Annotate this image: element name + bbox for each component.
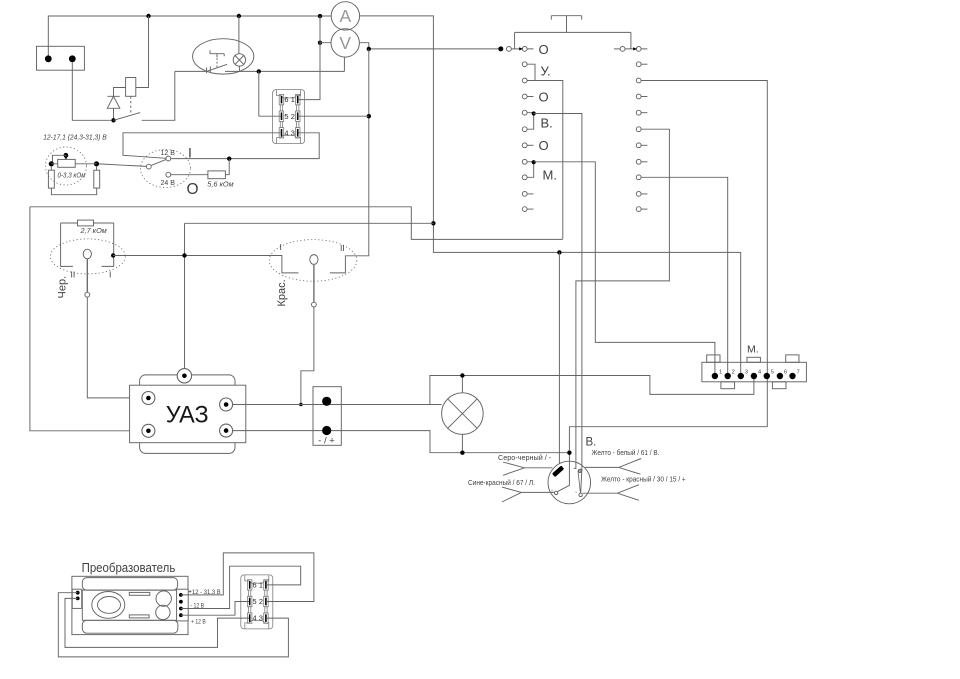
svg-text:12 В: 12 В	[161, 150, 176, 157]
rotary switch right bank contacts	[614, 47, 648, 212]
diode VD1	[107, 96, 120, 120]
wire: SA2 to SA3 rail	[113, 256, 298, 273]
leader: grey-black	[503, 462, 552, 475]
svg-text:Сине-красный / 67 / Л.: Сине-красный / 67 / Л.	[468, 479, 535, 487]
label: blue-red wire	[468, 479, 535, 487]
svg-text:II: II	[71, 270, 76, 280]
label: output voltage range	[43, 133, 107, 142]
svg-text:12-17,1 (24,3-31,3) В: 12-17,1 (24,3-31,3) В	[43, 133, 107, 142]
wire: pot terminals	[51, 163, 96, 165]
switch SA2 contacts	[61, 223, 114, 266]
relay armature dashed link	[130, 96, 132, 113]
switch SA3 red knob dotted outline	[269, 240, 357, 282]
wire: plug minus to diode node	[72, 62, 111, 120]
shunt box minus plus	[313, 387, 341, 446]
node: SA3 drop junction	[299, 403, 303, 407]
wire: 24V contact to resistor	[171, 159, 230, 175]
label: switch position I	[188, 145, 192, 161]
wire: M contact run to connector M pin 1	[534, 162, 715, 373]
node: feed junction to relay	[146, 14, 150, 18]
box UAZ body	[130, 385, 246, 443]
svg-text:ч: ч	[551, 488, 553, 493]
node: lamp bottom	[460, 451, 464, 455]
leader: blue-red	[502, 487, 554, 502]
leader: yellow-red	[583, 485, 640, 501]
switch blade of relay contact	[114, 113, 141, 121]
wire: X3 internal diagonal	[578, 471, 580, 493]
converter speaker	[92, 592, 125, 619]
label: +12 V	[191, 619, 206, 626]
potentiometer R1 dotted outline	[46, 147, 87, 185]
svg-text:В.: В.	[541, 115, 553, 130]
label: SA3 position II	[340, 243, 345, 253]
node: left bank feed dot	[498, 46, 503, 51]
svg-text:О: О	[539, 138, 549, 153]
wire: relay contact to indicator ellipse	[142, 71, 175, 120]
label: Kras.	[276, 279, 288, 306]
label: 12 V position	[161, 150, 176, 157]
wire: U contact drop	[535, 81, 563, 239]
round connector X3 ignition switch back	[548, 461, 591, 504]
node: M contact bracket	[532, 160, 536, 164]
svg-text:М.: М.	[543, 168, 557, 183]
wire: branch to ignition coil pin	[558, 252, 560, 463]
node: meters left top	[318, 14, 322, 18]
svg-text:Желто - красный / 30 / 15 / +: Желто - красный / 30 / 15 / +	[601, 475, 686, 483]
wire: wiper tie to left terminal	[52, 155, 66, 164]
wire: tap to X2 pin 4	[123, 133, 280, 159]
node: 12V line junction	[227, 157, 231, 161]
node: common vertical junction with X2 pin 2	[367, 114, 371, 118]
wire: SA2 rotor down to UAZ pin	[87, 297, 142, 398]
label: 24 V position	[161, 180, 176, 187]
wire: resistor loop	[51, 166, 96, 194]
node: lamp rail junction to round connector	[567, 451, 571, 455]
UAZ top pin	[177, 369, 191, 383]
switch SA2 rotor	[83, 249, 91, 297]
resistor R2 fixed left	[48, 170, 54, 188]
svg-text:У.: У.	[541, 64, 551, 79]
svg-text:V: V	[339, 33, 351, 53]
wire: right bank row9 to M pin 2	[641, 177, 728, 372]
label: - / +	[318, 436, 335, 447]
label: У.	[541, 64, 551, 79]
potentiometer wiper	[64, 153, 69, 160]
label: grey-black wire	[498, 454, 552, 462]
wire: indicator node down to connector X2 pin 5	[259, 71, 281, 116]
connector M pins 1-7	[712, 369, 800, 379]
connector M housing	[702, 355, 807, 389]
label: О row4	[539, 90, 549, 105]
wire: converter +12V to X5 pin 5	[181, 602, 249, 616]
label: 5,6 kOhm	[207, 180, 233, 189]
wire: UAZ right top to lamp	[233, 404, 442, 406]
X3 terminal bottom-right	[575, 490, 582, 497]
label: О row7	[539, 138, 549, 153]
svg-text:4: 4	[758, 369, 761, 375]
label: 2,7 kOhm	[80, 226, 107, 235]
wire: strap branch to both rotary commons	[515, 32, 631, 49]
svg-text:I: I	[188, 145, 192, 161]
leader: yellow-white	[585, 459, 641, 475]
label: SA3 position I	[280, 242, 282, 252]
resistor R3 fixed right	[94, 170, 100, 188]
svg-text:Чер.: Чер.	[57, 276, 69, 299]
label: В.	[541, 115, 553, 130]
box UAZ rounded housing	[140, 375, 235, 454]
node: voltmeter output junction	[367, 47, 371, 51]
switch SA3 rotor	[310, 255, 318, 307]
wire: UAZ left loop	[30, 207, 142, 431]
svg-text:0-3,3 кОм: 0-3,3 кОм	[58, 170, 86, 179]
label: SA2 position II	[71, 270, 76, 280]
lamp symbol in indicator	[233, 16, 245, 71]
voltmeter V	[331, 29, 359, 57]
svg-text:7: 7	[797, 369, 800, 375]
potentiometer R1 body	[58, 159, 75, 167]
connector X1 power plug	[37, 46, 85, 70]
wire: common vertical to red switch	[330, 49, 369, 273]
label: Cher.	[57, 276, 69, 299]
svg-text:Крас.: Крас.	[276, 279, 288, 306]
node: pot left terminal	[49, 161, 54, 166]
node: ammeter run junction to round connector pin	[557, 250, 561, 254]
svg-text:О: О	[539, 90, 549, 105]
wire: X2 pin2 to common vertical	[298, 115, 369, 117]
connector X2 six pin	[273, 90, 305, 144]
converter slots	[129, 592, 150, 618]
wire: converter left 1 to X5 pin 3	[58, 593, 288, 657]
relay K1 coil	[114, 16, 149, 96]
svg-text:ч: ч	[575, 490, 577, 495]
switch SA2 black knob dotted outline	[50, 239, 125, 274]
label: О row1	[539, 42, 549, 57]
svg-text:2,7 кОм: 2,7 кОм	[80, 226, 107, 235]
label: M. connector	[747, 344, 759, 356]
switch symbol in indicator	[206, 50, 227, 73]
wire: battery plus feed	[48, 16, 331, 55]
converter knobs	[156, 591, 172, 620]
X3 terminal bottom-left	[551, 488, 558, 495]
converter face	[82, 590, 177, 620]
svg-text:5: 5	[771, 369, 774, 375]
svg-text:УАЗ: УАЗ	[166, 402, 209, 429]
wire: UAZ right bottom to lamp bottom rail	[233, 431, 570, 453]
svg-text:24 В: 24 В	[161, 180, 176, 187]
wire: 12V contact line to X2 pin 3	[171, 133, 320, 159]
lamp EL1	[442, 376, 484, 453]
svg-text:О: О	[539, 42, 549, 57]
label: B. near connector	[586, 436, 597, 448]
label: SA2 position I	[109, 270, 111, 280]
converter top bar	[82, 578, 177, 591]
svg-text:O: O	[187, 181, 199, 198]
svg-text:Желто - белый / 61 / В.: Желто - белый / 61 / В.	[592, 449, 660, 457]
node: meters left bottom	[318, 41, 322, 45]
label: switch position O	[187, 181, 199, 198]
voltage switch SA1 dotted outline	[141, 150, 191, 188]
voltage switch SA1 contacts	[146, 156, 170, 177]
label: UAZ	[166, 402, 209, 429]
node: diode-switch junction	[111, 118, 115, 122]
node: feed junction to indicator lamp	[237, 14, 241, 18]
indicator lamp HL1 ellipse housing	[193, 39, 254, 74]
resistor R5 2.7 kOhm	[61, 220, 114, 226]
svg-text:2: 2	[732, 369, 735, 375]
wire: UAZ top feed	[185, 223, 434, 368]
wire: converter out to X5 pin 2	[181, 553, 314, 602]
converter bottom bar	[82, 620, 178, 633]
svg-text:6: 6	[784, 369, 787, 375]
label: yellow-red wire	[601, 475, 686, 483]
wire: pot to voltage switch common	[99, 164, 146, 167]
svg-text:5,6 кОм: 5,6 кОм	[207, 180, 233, 189]
wire: lamp top loop to M pin 4	[430, 376, 754, 405]
resistor R4 5.6 kOhm	[208, 171, 226, 179]
label: yellow-white wire	[592, 449, 660, 457]
label: -12 V	[190, 603, 204, 610]
X3 blade terminal	[552, 465, 564, 477]
node: V contact bracket	[532, 111, 536, 115]
converter right pin block	[177, 589, 189, 621]
svg-text:3: 3	[745, 369, 748, 375]
wire: voltmeter output to rotary common	[359, 43, 500, 49]
wire: SA3 rotor to UAZ right wire	[301, 307, 314, 405]
UAZ corner pins	[142, 392, 233, 438]
label: М. rotary	[543, 168, 557, 183]
svg-text:A: A	[340, 6, 352, 26]
ground strap symbol	[551, 16, 581, 33]
converter left pin block	[72, 589, 82, 608]
svg-text:В.: В.	[586, 436, 597, 448]
node: ammeter run junction with UAZ top feed	[431, 221, 435, 225]
X3 terminal plus	[578, 469, 581, 472]
label: Preobrazovatel	[82, 560, 176, 575]
node: indicator rail junction	[257, 69, 261, 73]
wire: right bank row6 to round connector plus	[574, 129, 670, 468]
wire: right bank row3 to M pin 5 and beyond	[558, 81, 768, 492]
wire: converter -12V to X5 pin 1	[181, 566, 301, 608]
svg-text:М.: М.	[747, 344, 759, 356]
wire: bulkhead rail to U contact of rotary	[30, 207, 563, 240]
svg-text:+ 12 В: + 12 В	[191, 619, 206, 626]
ammeter A	[331, 2, 359, 30]
wire: V contact long drop to round connector	[534, 114, 582, 493]
converter outer case	[72, 576, 188, 634]
connector X5 six pin	[241, 575, 273, 629]
label: 12-31,3 V with arrow	[189, 589, 222, 596]
label: 0-3,3 kOhm	[58, 170, 86, 179]
rotary switch left bank contacts	[507, 47, 536, 212]
wire: meters left rail to X2 pin 1	[298, 16, 331, 100]
wire: indicator bottom rail	[175, 57, 345, 72]
svg-text:II: II	[340, 243, 345, 253]
svg-text:Серо-черный / -: Серо-черный / -	[498, 454, 552, 462]
svg-text:I: I	[280, 242, 282, 252]
svg-text:1: 1	[719, 369, 722, 375]
wire: converter left 2 to X5 pin 4	[65, 598, 249, 647]
svg-text:- / +: - / +	[318, 436, 335, 447]
node: rail junction to UAZ	[182, 253, 186, 257]
node: lamp top	[460, 373, 464, 377]
node: pot right terminal	[94, 161, 99, 166]
wire: ammeter output long run to connector M pin 3	[360, 16, 741, 373]
svg-text:I: I	[109, 270, 111, 280]
svg-text:Преобразователь: Преобразователь	[82, 560, 176, 575]
node: SA2 output	[111, 253, 115, 257]
